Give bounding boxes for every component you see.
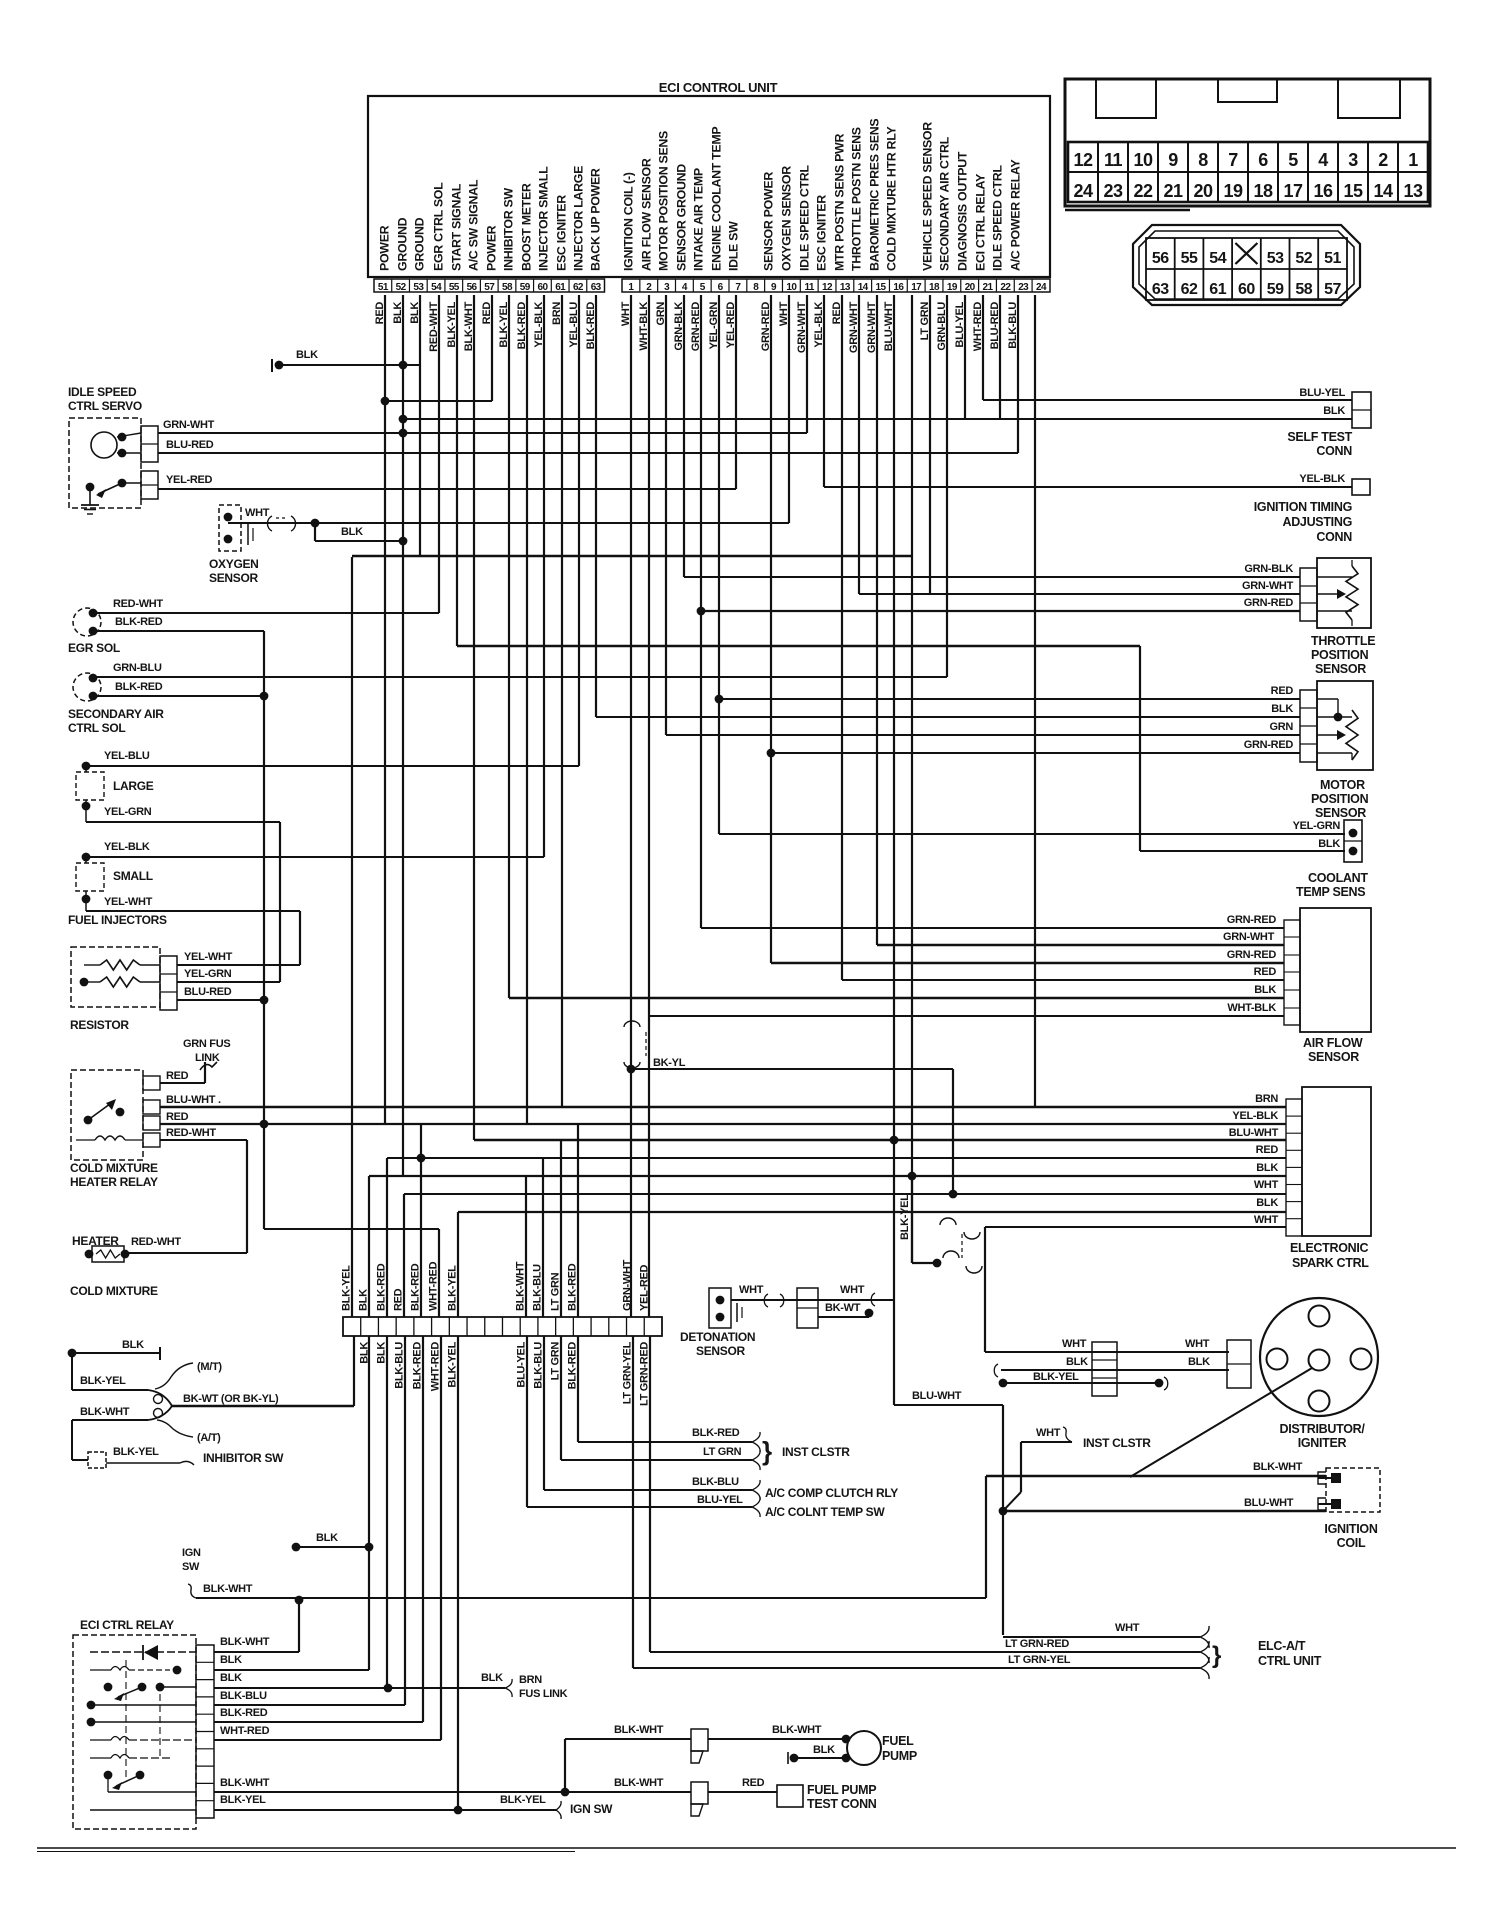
strip column WHT-RED upper — [438, 1229, 440, 1317]
svg-text:BLU-WHT: BLU-WHT — [1229, 1127, 1279, 1139]
svg-text:LT GRN: LT GRN — [550, 1342, 562, 1381]
connector A grid mid line — [1068, 171, 1428, 173]
BLK wire to coolant temp sensor — [1140, 850, 1345, 852]
junction — [260, 1120, 269, 1129]
svg-text:20: 20 — [965, 282, 976, 293]
svg-text:GRN-WHT: GRN-WHT — [1242, 580, 1294, 592]
svg-text:GRN-RED: GRN-RED — [1227, 914, 1277, 926]
pin 18 LT GRN wire — [929, 295, 931, 594]
inhibitor stub — [72, 1459, 88, 1461]
RED-WHT wire heater — [127, 1252, 247, 1254]
motor inner GRN-RED lead — [1317, 752, 1352, 754]
svg-text:RED: RED — [166, 1111, 189, 1123]
svg-text:AIR FLOW SENSOR: AIR FLOW SENSOR — [640, 158, 654, 271]
pin strip divider — [924, 279, 926, 292]
connector A grid divider — [1307, 142, 1309, 202]
pin strip divider — [674, 279, 676, 292]
svg-text:BLK-WHT: BLK-WHT — [220, 1777, 270, 1789]
BLK wire to self test conn — [403, 418, 1352, 420]
resistor element 2 — [100, 977, 140, 987]
link wire lower bus — [264, 1228, 439, 1230]
svg-text:BLK-YEL: BLK-YEL — [1033, 1371, 1079, 1383]
GRN-RED wire to air flow sensor — [701, 927, 1284, 929]
svg-text:BLK: BLK — [220, 1672, 242, 1684]
strip column BLK-YEL2 upper — [457, 1212, 459, 1317]
svg-text:WHT: WHT — [739, 1284, 764, 1296]
oxygen sensor box — [219, 505, 241, 551]
junction — [716, 1313, 725, 1322]
junction — [999, 1507, 1008, 1516]
relay diode — [144, 1645, 158, 1660]
connector B grid — [1146, 238, 1347, 300]
svg-text:59: 59 — [520, 282, 531, 293]
svg-text:INJECTOR LARGE: INJECTOR LARGE — [572, 166, 586, 271]
svg-text:SPARK CTRL: SPARK CTRL — [1292, 1256, 1369, 1270]
pin strip divider — [817, 279, 819, 292]
strip column BLK upper — [368, 1176, 370, 1317]
svg-text:FUEL INJECTORS: FUEL INJECTORS — [68, 913, 167, 927]
strip column GRN-WHT lower — [632, 1336, 634, 1668]
junction — [865, 1309, 874, 1318]
RED wire fuel pump test conn — [708, 1791, 777, 1793]
pin 24 wire — [1034, 295, 1036, 1107]
BLK-YEL riser elbow — [912, 1262, 937, 1264]
svg-text:YEL-BLK: YEL-BLK — [104, 841, 150, 853]
WHT-BLK wire to air flow sensor — [649, 1015, 1284, 1017]
svg-text:BLK-BLU: BLK-BLU — [220, 1690, 267, 1702]
junction — [999, 1379, 1008, 1388]
BLK-WHT wire fuel pump 2 — [708, 1738, 846, 1740]
pin 63 BLK-RED wire — [595, 295, 597, 717]
svg-text:RED: RED — [166, 1070, 189, 1082]
svg-text:22: 22 — [1133, 181, 1153, 201]
YEL-WHT wire small injector — [86, 910, 300, 912]
svg-text:BLU-YEL: BLU-YEL — [516, 1341, 528, 1387]
secondary air terminal 2 — [89, 692, 98, 701]
svg-text:GROUND: GROUND — [396, 217, 410, 271]
svg-text:LT GRN: LT GRN — [550, 1272, 562, 1311]
pin 59 BLK-RED wire — [526, 295, 528, 1124]
strip column BLK-YEL upper — [351, 557, 353, 1317]
GRN-WHT wire to air flow sensor — [877, 944, 1284, 946]
svg-text:BACK UP POWER: BACK UP POWER — [589, 168, 603, 271]
GRN-BLK wire to throttle sensor — [684, 576, 1300, 578]
svg-text:IGN: IGN — [182, 1547, 201, 1559]
relay contact row dots — [104, 1683, 113, 1692]
svg-text:1: 1 — [1408, 150, 1418, 170]
junction strip divider — [501, 1317, 503, 1336]
ignition coil box — [1326, 1468, 1380, 1512]
connector A grid divider — [1247, 142, 1249, 202]
strip column WHT-RED lower — [440, 1336, 442, 1740]
ignition timing conn box — [1352, 479, 1370, 495]
strip column RED upper — [403, 1194, 405, 1317]
YEL-GRN loop wire — [279, 822, 281, 982]
connector A grid divider — [1127, 142, 1129, 202]
motor inner RED lead — [1317, 698, 1338, 700]
connector A grid divider — [1367, 142, 1369, 202]
WHT wire 2 to spark ctrl — [985, 1226, 1286, 1228]
svg-text:2: 2 — [1378, 150, 1388, 170]
svg-text:IGNITER: IGNITER — [1298, 1436, 1347, 1450]
coil terminal B2 — [1331, 1499, 1341, 1509]
blk hook left — [994, 1364, 998, 1377]
svg-text:61: 61 — [1209, 281, 1226, 298]
svg-text:BLK: BLK — [1066, 1356, 1088, 1368]
svg-text:55: 55 — [449, 282, 460, 293]
junction strip divider — [377, 1317, 379, 1336]
resistor lead 2b — [140, 981, 160, 983]
svg-text:BK-WT: BK-WT — [825, 1302, 861, 1314]
svg-text:SENSOR GROUND: SENSOR GROUND — [675, 164, 689, 271]
junction — [121, 1250, 130, 1259]
air flow conn cells — [1284, 920, 1300, 1025]
det connector stack — [797, 1288, 818, 1328]
junction — [716, 1296, 725, 1305]
svg-text:57: 57 — [1324, 281, 1341, 298]
YEL-GRN wire large injector — [86, 821, 280, 823]
svg-text:IDLE SW: IDLE SW — [727, 221, 741, 271]
BLK wire to distributor — [1001, 1369, 1229, 1371]
pin strip divider — [906, 279, 908, 292]
svg-text:ECI CTRL RELAY: ECI CTRL RELAY — [80, 1618, 174, 1632]
cm relay contact b — [116, 1108, 125, 1117]
svg-text:BLK-WHT: BLK-WHT — [1253, 1461, 1303, 1473]
RED wire to spark ctrl — [387, 1157, 1286, 1159]
svg-text:SENSOR: SENSOR — [1315, 806, 1366, 820]
eci relay pin divider — [196, 1782, 214, 1784]
WHT wire detonation sensor — [731, 1299, 894, 1301]
svg-text:BLK: BLK — [358, 1289, 370, 1311]
pin strip divider — [515, 279, 517, 292]
connector A base mark — [1065, 209, 1190, 212]
svg-text:EGR CTRL SOL: EGR CTRL SOL — [432, 182, 446, 271]
junction — [399, 361, 408, 370]
junction strip divider — [608, 1317, 610, 1336]
svg-text:COOLANT: COOLANT — [1308, 871, 1368, 885]
svg-text:BLK-YEL: BLK-YEL — [500, 1794, 546, 1806]
heater element — [96, 1250, 120, 1258]
svg-text:POWER: POWER — [485, 225, 499, 271]
svg-text:YEL-GRN: YEL-GRN — [184, 968, 232, 980]
svg-text:55: 55 — [1181, 250, 1198, 267]
svg-text:BLK: BLK — [1323, 405, 1345, 417]
connector A grid divider — [1337, 142, 1339, 202]
pin 10 WHT wire — [788, 295, 790, 523]
svg-text:BLK-RED: BLK-RED — [410, 1263, 422, 1311]
connector view B inner outline — [1139, 231, 1354, 299]
svg-text:BLK-WHT: BLK-WHT — [203, 1583, 253, 1595]
connector B divider — [1231, 238, 1233, 300]
coil wire 1 tail — [1318, 1477, 1331, 1479]
svg-text:54: 54 — [1209, 250, 1226, 267]
svg-text:START SIGNAL: START SIGNAL — [450, 183, 464, 271]
strip column BLK-RED3 lower — [577, 1336, 579, 1442]
RED wire to fuse link — [160, 1082, 205, 1084]
BLK wire fuel pump — [794, 1757, 846, 1759]
svg-text:60: 60 — [1238, 281, 1255, 298]
svg-text:YEL-WHT: YEL-WHT — [184, 951, 233, 963]
distributor WHT riser — [984, 1227, 986, 1352]
motor conn cells — [1300, 690, 1317, 762]
svg-text:15: 15 — [1343, 181, 1363, 201]
junction — [908, 1172, 917, 1181]
connector A tab mid — [1218, 80, 1277, 102]
fuel pump branch riser — [564, 1739, 566, 1792]
cold mixture heater relay box — [71, 1070, 143, 1160]
svg-text:23: 23 — [1103, 181, 1123, 201]
WHT wire to distributor — [985, 1351, 1229, 1353]
BLK wire to motor position sensor — [596, 716, 1300, 718]
svg-text:BRN: BRN — [1255, 1093, 1278, 1105]
connector A grid divider — [1217, 142, 1219, 202]
junction strip divider — [466, 1317, 468, 1336]
junction — [949, 1190, 958, 1199]
connector B divider — [1317, 238, 1319, 300]
svg-text:61: 61 — [555, 282, 566, 293]
pin strip divider — [1031, 279, 1033, 292]
BLK-WHT drop — [71, 1420, 73, 1460]
junction — [275, 361, 284, 370]
svg-text:7: 7 — [1228, 150, 1238, 170]
svg-text:FUEL PUMP: FUEL PUMP — [807, 1783, 876, 1797]
WHT-RED wire eci relay — [214, 1739, 441, 1741]
junction — [417, 1154, 426, 1163]
svg-text:WHT-RED: WHT-RED — [430, 1342, 442, 1392]
svg-text:BOOST METER: BOOST METER — [520, 183, 534, 271]
junction — [1155, 1379, 1164, 1388]
resistor box — [71, 947, 160, 1007]
svg-text:18: 18 — [929, 282, 940, 293]
svg-text:BLU-WHT: BLU-WHT — [912, 1390, 962, 1402]
GRN-RED wire to motor position sensor — [771, 752, 1300, 754]
pin 17 wire — [911, 295, 913, 1263]
dist side connector — [1227, 1340, 1251, 1388]
connector A grid divider — [1097, 142, 1099, 202]
connector A grid divider — [1277, 142, 1279, 202]
coil terminal B1 — [1331, 1473, 1341, 1483]
coil notch 2 — [1318, 1498, 1326, 1510]
oxygen sensor tick — [247, 524, 249, 545]
relay coil row 6 — [90, 1739, 111, 1741]
svg-text:BLK-YEL: BLK-YEL — [899, 1194, 911, 1240]
junction — [260, 996, 269, 1005]
BK-YL jumper wire — [631, 1068, 953, 1070]
pin strip divider — [692, 279, 694, 292]
svg-text:BRN: BRN — [519, 1674, 542, 1686]
relay lead 8 — [90, 1809, 196, 1811]
detonation sensor box — [709, 1288, 731, 1328]
small injector box — [76, 863, 104, 891]
relay inner dash vertical 2 — [159, 1694, 161, 1758]
svg-text:BLK: BLK — [1188, 1356, 1210, 1368]
svg-text:52: 52 — [396, 282, 407, 293]
svg-text:BLK-WHT: BLK-WHT — [614, 1724, 664, 1736]
pin strip divider — [1013, 279, 1015, 292]
throttle pot lead top — [1317, 576, 1352, 578]
servo connector cells 2 — [141, 471, 158, 499]
BK-YL drop wire — [952, 1069, 954, 1194]
relay bottom arm — [116, 1775, 140, 1786]
connector B divider — [1289, 238, 1291, 300]
LT GRN wire to inst clstr — [561, 1459, 752, 1461]
det break 2 — [871, 1293, 875, 1306]
svg-text:IGNITION: IGNITION — [1324, 1522, 1377, 1536]
bottom rule 2 — [37, 1851, 575, 1853]
svg-text:17: 17 — [911, 282, 922, 293]
pin strip divider — [586, 279, 588, 292]
inst right hook — [1063, 1427, 1072, 1442]
svg-text:63: 63 — [591, 282, 602, 293]
svg-text:THROTTLE: THROTTLE — [1311, 634, 1375, 648]
svg-text:14: 14 — [1373, 181, 1393, 201]
coil BLK-WHT riser — [985, 1476, 987, 1598]
svg-text:SENSOR POWER: SENSOR POWER — [762, 172, 776, 271]
BLK-WHT wire eci relay — [214, 1651, 299, 1653]
servo ground stem — [89, 487, 91, 505]
servo motor link 1 — [117, 433, 141, 437]
pin strip divider — [995, 279, 997, 292]
svg-text:HEATER RELAY: HEATER RELAY — [70, 1175, 158, 1189]
strip column BLK-BLU lower — [543, 1336, 545, 1490]
svg-text:A/C POWER RELAY: A/C POWER RELAY — [1009, 159, 1023, 271]
detonation tick — [736, 1303, 738, 1322]
YEL-BLK wire to ignition timing conn — [824, 486, 1352, 488]
pin 12 YEL-BLK wire — [823, 295, 825, 487]
pin 56 BLK-WHT wire — [473, 295, 475, 1140]
svg-text:BLK: BLK — [316, 1532, 338, 1544]
inst clstr riser — [1020, 1442, 1022, 1492]
svg-text:56: 56 — [467, 282, 478, 293]
eci ctrl relay box — [73, 1635, 196, 1829]
cm relay contact a — [84, 1116, 93, 1125]
pin 53 BLK wire — [419, 295, 421, 556]
WHT wire to inst clstr right — [1021, 1441, 1072, 1443]
svg-text:INST CLSTR: INST CLSTR — [782, 1445, 850, 1459]
pin 61 BRN wire — [561, 295, 563, 1107]
pin strip divider — [444, 279, 446, 292]
svg-text:17: 17 — [1283, 181, 1303, 201]
BLK-RED wire to inst clstr — [578, 1441, 752, 1443]
YEL-WHT loop wire — [299, 911, 301, 965]
resistor lead 1a — [84, 964, 100, 966]
svg-text:ENGINE COOLANT TEMP: ENGINE COOLANT TEMP — [710, 127, 724, 271]
BLU-WHT / BRN wire to spark ctrl — [160, 1106, 1286, 1108]
svg-text:BLK-RED: BLK-RED — [567, 1342, 579, 1390]
coolant sensor box — [1344, 820, 1362, 862]
svg-text:B: B — [1333, 1501, 1339, 1510]
junction — [1349, 829, 1358, 838]
strip column LT GRN upper — [560, 1140, 562, 1317]
strip column BLK-YEL2 lower — [457, 1336, 459, 1810]
pin 60 YEL-BLK wire — [543, 295, 545, 857]
dist connector stack — [1092, 1342, 1117, 1396]
heavy bus wire — [352, 555, 912, 558]
oxygen sensor pin 2 — [224, 535, 233, 544]
pin 22 BLU-RED wire — [999, 295, 1001, 419]
throttle conn cells — [1300, 568, 1317, 621]
bk-wt end — [868, 1311, 870, 1317]
cm relay coil — [95, 1136, 125, 1140]
svg-text:RESISTOR: RESISTOR — [70, 1018, 129, 1032]
relay coil 2 — [90, 1669, 111, 1671]
svg-text:20: 20 — [1193, 181, 1213, 201]
GRN-WHT wire idle servo — [158, 432, 807, 434]
junction strip divider — [431, 1317, 433, 1336]
svg-text:BLK: BLK — [1256, 1162, 1278, 1174]
relay coil 2 dot — [173, 1666, 182, 1675]
junction strip divider — [555, 1317, 557, 1336]
junction — [890, 1136, 899, 1145]
svg-text:14: 14 — [858, 282, 869, 293]
pin strip 1-24 outline — [622, 279, 1050, 292]
servo motor terminal 2 — [118, 449, 127, 458]
pin 62 YEL-BLU wire — [578, 295, 580, 766]
BLK wire to air flow sensor — [509, 997, 1284, 999]
svg-text:IGNITION COIL (-): IGNITION COIL (-) — [622, 172, 636, 271]
coolant BLK drop wire — [1139, 646, 1141, 851]
pin strip divider — [764, 279, 766, 292]
connector view B outline — [1133, 225, 1360, 305]
svg-text:BLU-WHT .: BLU-WHT . — [166, 1094, 221, 1106]
svg-text:GRN FUS: GRN FUS — [183, 1038, 230, 1050]
idle speed ctrl servo box — [69, 418, 141, 508]
BLK wire oxygen sensor — [315, 540, 403, 542]
elc hooks — [1200, 1626, 1209, 1648]
svg-text:BLU-YEL: BLU-YEL — [697, 1494, 743, 1506]
svg-text:BLK-WHT: BLK-WHT — [220, 1636, 270, 1648]
pin 57 RED wire — [491, 295, 493, 401]
svg-text:WHT: WHT — [1115, 1622, 1140, 1634]
relay lead 5 — [91, 1721, 196, 1723]
distributor rotor line — [1130, 1368, 1312, 1477]
BLK-WHT wire to fuel pump — [565, 1738, 691, 1740]
svg-text:BLK-RED: BLK-RED — [220, 1707, 268, 1719]
svg-text:(A/T): (A/T) — [197, 1432, 221, 1444]
strip column BLK-RED upper — [386, 1158, 388, 1317]
svg-text:COLD MIXTURE HTR RLY: COLD MIXTURE HTR RLY — [885, 126, 899, 271]
YEL-RED wire idle servo — [158, 488, 736, 490]
GRN wire to motor position sensor — [666, 734, 1300, 736]
svg-text:GRN-RED: GRN-RED — [1227, 949, 1277, 961]
svg-text:WHT: WHT — [1254, 1179, 1279, 1191]
svg-text:RED: RED — [1254, 966, 1277, 978]
svg-text:A/C COLNT TEMP SW: A/C COLNT TEMP SW — [765, 1505, 885, 1519]
BLK wire eci relay — [214, 1669, 369, 1671]
junction — [715, 695, 724, 704]
svg-text:BLK: BLK — [1256, 1197, 1278, 1209]
GRN-BLU wire secondary air sol — [95, 676, 947, 678]
self test conn box — [1352, 392, 1371, 428]
junction strip divider — [572, 1317, 574, 1336]
secondary air sol coil — [73, 673, 101, 701]
svg-text:60: 60 — [538, 282, 549, 293]
BLK drop — [71, 1353, 73, 1390]
junction — [790, 1754, 799, 1763]
svg-text:BLK-RED: BLK-RED — [567, 1263, 579, 1311]
svg-text:15: 15 — [876, 282, 887, 293]
pin 52 BLK wire — [402, 295, 404, 1176]
svg-text:BLK: BLK — [1271, 703, 1293, 715]
svg-text:53: 53 — [413, 282, 424, 293]
junction — [399, 537, 408, 546]
distributor terminal bottom — [1309, 1391, 1330, 1412]
svg-text:THROTTLE POSTN SENS: THROTTLE POSTN SENS — [850, 127, 864, 271]
svg-text:ELECTRONIC: ELECTRONIC — [1290, 1241, 1369, 1255]
svg-text:62: 62 — [573, 282, 584, 293]
svg-text:ELC-A/T: ELC-A/T — [1258, 1639, 1306, 1653]
svg-text:INJECTOR SMALL: INJECTOR SMALL — [537, 166, 551, 271]
